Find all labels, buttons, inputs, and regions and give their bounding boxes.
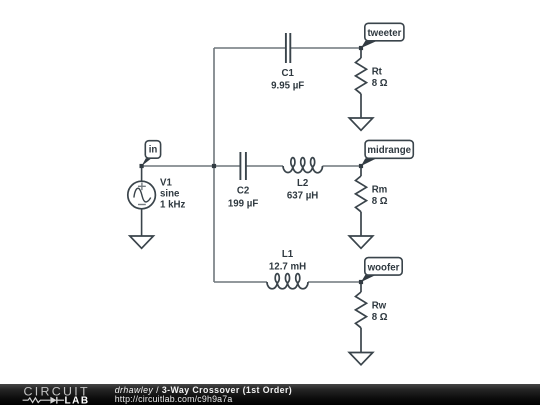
node woofer label [361, 258, 402, 282]
svg-text:Rw: Rw [372, 301, 387, 312]
svg-text:12.7 mH: 12.7 mH [269, 262, 306, 273]
svg-text:midrange: midrange [367, 145, 411, 156]
svg-text:8 Ω: 8 Ω [372, 312, 388, 323]
wire L1 to woofer node [308, 281, 361, 283]
V1 top lead [141, 166, 143, 181]
node dot in [140, 164, 144, 168]
ground (tweeter) [349, 118, 373, 130]
node dot tweeter [359, 46, 363, 50]
wire C2 to L2 [246, 165, 283, 167]
node dot woofer [359, 280, 363, 284]
svg-text:Rt: Rt [372, 67, 383, 78]
ground (woofer) [349, 353, 373, 365]
wire L2 to midrange node [323, 165, 362, 167]
V1 plus sign [138, 182, 146, 190]
svg-text:woofer: woofer [367, 262, 400, 273]
svg-text:LAB: LAB [65, 395, 90, 405]
logo diode [50, 397, 56, 404]
V1 sine wave [134, 188, 151, 202]
capacitor C2 [240, 152, 246, 180]
inductor L1 [267, 274, 308, 289]
voltage source V1 [128, 166, 156, 236]
capacitor C1 [286, 33, 290, 63]
wire bottom row to L1 [214, 281, 267, 283]
svg-text:8 Ω: 8 Ω [372, 196, 388, 207]
wire junction to C2 [214, 165, 240, 167]
ground (V1) [130, 236, 154, 248]
svg-text:V1: V1 [160, 178, 172, 189]
svg-text:sine: sine [160, 188, 180, 199]
svg-text:8 Ω: 8 Ω [372, 78, 388, 89]
resistor Rm [356, 166, 367, 236]
svg-text:1 kHz: 1 kHz [160, 199, 185, 210]
logo schematic line with resistor [23, 398, 51, 403]
node dot midrange [359, 164, 363, 168]
wire top-left bus vertical [213, 48, 215, 282]
V1 minus sign [138, 204, 146, 206]
node in label [142, 141, 161, 166]
svg-text:tweeter: tweeter [367, 28, 401, 39]
junction dot bus [212, 164, 216, 168]
svg-text:L2: L2 [297, 178, 308, 189]
wire top row right of C1 [290, 47, 361, 49]
resistor Rw [356, 282, 367, 353]
resistor Rt [356, 48, 367, 118]
inductor L2 [283, 158, 323, 173]
svg-text:http://circuitlab.com/c9h9a7a: http://circuitlab.com/c9h9a7a [115, 394, 233, 404]
svg-text:9.95 µF: 9.95 µF [271, 81, 304, 92]
svg-text:199 µF: 199 µF [228, 198, 258, 209]
V1 bottom lead [141, 209, 143, 236]
svg-text:637 µH: 637 µH [287, 191, 318, 202]
svg-text:L1: L1 [282, 249, 294, 260]
svg-text:in: in [149, 145, 158, 156]
svg-text:C1: C1 [282, 68, 295, 79]
footer bar [0, 384, 540, 405]
node midrange label [361, 140, 413, 166]
wire in-node to junction [142, 165, 214, 167]
node tweeter label [361, 23, 404, 48]
wire top row left of C1 [214, 47, 286, 49]
svg-text:Rm: Rm [372, 185, 388, 196]
ground (midrange) [349, 236, 373, 248]
V1 circle [128, 181, 156, 209]
svg-text:C2: C2 [237, 186, 249, 197]
